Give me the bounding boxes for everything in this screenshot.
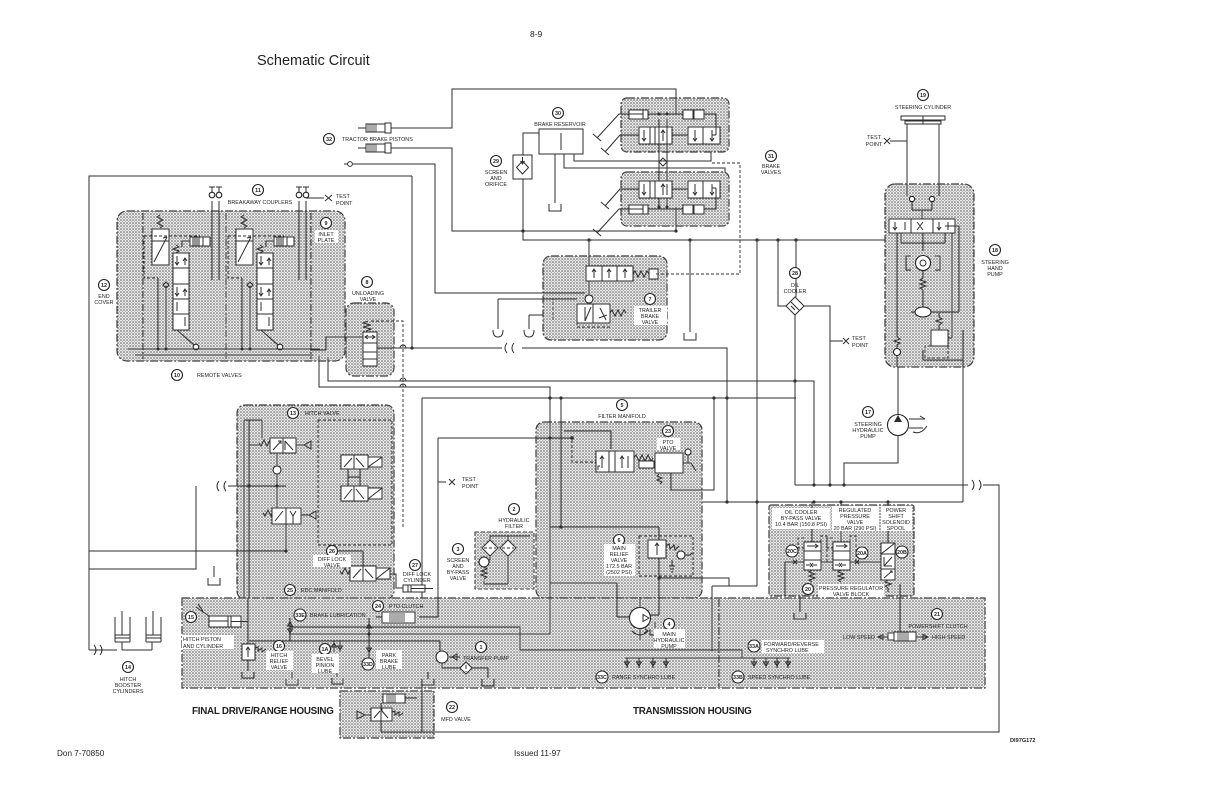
callout 14 bbox=[123, 662, 134, 673]
relief pilot tick bbox=[685, 553, 692, 555]
tank symbol under reservoir bbox=[549, 204, 561, 211]
valve B arrows bbox=[344, 458, 364, 467]
wire cooler top riser bbox=[795, 240, 797, 297]
wire forward reverse lube manifold bbox=[625, 650, 790, 658]
svg-text:33B: 33B bbox=[733, 675, 743, 681]
valve B arrows bbox=[693, 130, 714, 141]
svg-text:8-9: 8-9 bbox=[530, 29, 543, 39]
valve B cells bbox=[702, 127, 704, 144]
check circle small bbox=[894, 349, 901, 356]
svg-text:MFD VALVE: MFD VALVE bbox=[441, 717, 471, 723]
valve arrows bbox=[893, 222, 948, 230]
callout 17 bbox=[863, 407, 874, 418]
pump triangle right bbox=[643, 615, 649, 622]
label main relief bbox=[604, 544, 635, 576]
svg-text:PTO CLUTCH: PTO CLUTCH bbox=[389, 604, 423, 610]
transfer pump drop bbox=[442, 663, 461, 668]
callout 29 bbox=[491, 156, 502, 167]
junction dot bbox=[367, 632, 370, 635]
svg-text:FINAL DRIVE/RANGE HOUSING: FINAL DRIVE/RANGE HOUSING bbox=[192, 706, 334, 717]
piston hatch bbox=[277, 237, 287, 246]
junction dot bbox=[812, 483, 815, 486]
junction dot bbox=[725, 396, 728, 399]
valve 20A body bbox=[833, 542, 850, 570]
wire test point x438 stub bbox=[438, 481, 446, 483]
valve C solenoid bbox=[368, 488, 382, 499]
clutch body bbox=[894, 632, 916, 641]
callout 27 bbox=[410, 560, 421, 571]
hitch valve A body bbox=[270, 438, 296, 453]
junction dot bbox=[275, 484, 278, 487]
breakaway coupler circles unit2 bbox=[296, 192, 302, 198]
tank symbol hitch bbox=[208, 578, 220, 585]
junction dot bbox=[886, 500, 889, 503]
MFD spring bbox=[392, 711, 403, 716]
svg-text:SYNCHRO LUBE: SYNCHRO LUBE bbox=[766, 648, 809, 654]
svg-text:COVER: COVER bbox=[94, 300, 113, 306]
MFD piston bbox=[383, 694, 405, 703]
tank strip main pump bbox=[650, 622, 661, 635]
20C dashes bbox=[798, 536, 827, 564]
check riser lower bbox=[276, 474, 278, 508]
lower valve spring bbox=[610, 310, 626, 316]
svg-text:7: 7 bbox=[649, 297, 652, 303]
svg-text:20A: 20A bbox=[857, 551, 867, 557]
piston stem bbox=[182, 241, 190, 247]
callout 33D bbox=[362, 658, 374, 670]
callout 20A bbox=[856, 547, 868, 559]
svg-text:33D: 33D bbox=[363, 662, 373, 668]
solenoid 20B valve bbox=[881, 554, 895, 569]
wire cooler left riser bbox=[778, 240, 786, 306]
lower valve body B bbox=[688, 181, 720, 198]
svg-text:BRAKE RESERVOIR: BRAKE RESERVOIR bbox=[534, 122, 586, 128]
hitch relief spring bbox=[255, 647, 266, 652]
dashed pilot brake to trailer valve bbox=[656, 163, 740, 274]
hitch valve A spring bbox=[259, 440, 272, 446]
tank symbol under regulator bbox=[794, 613, 806, 619]
wire reservoir bottom out 2 bbox=[564, 154, 725, 172]
clutch left rect bbox=[888, 633, 894, 640]
pump circle bbox=[888, 415, 909, 436]
PTO clutch stem bbox=[376, 616, 382, 618]
unit 2 spool spring bbox=[257, 245, 263, 253]
PTO valve cells bbox=[609, 451, 615, 472]
svg-text:TEST: TEST bbox=[867, 135, 881, 141]
junction dot bbox=[712, 396, 715, 399]
trailer spool arrows bbox=[592, 269, 627, 278]
MFD link bbox=[381, 731, 422, 733]
valve C arrows bbox=[344, 489, 364, 499]
svg-text:1: 1 bbox=[480, 645, 483, 651]
hitch cylinder body bbox=[209, 616, 241, 627]
steering hand pump housing bbox=[885, 184, 974, 367]
svg-text:30: 30 bbox=[555, 111, 561, 117]
label box regulated pressure bbox=[832, 506, 879, 531]
solenoid diagonal bbox=[368, 488, 382, 499]
cylinder rod walls bbox=[907, 124, 939, 196]
wire steering test stub bbox=[835, 340, 843, 342]
clutch hatch bbox=[898, 632, 908, 641]
valve BC link bbox=[348, 469, 360, 486]
junction dot bbox=[570, 436, 574, 440]
gerotor circle bbox=[916, 256, 931, 271]
hitch piston lever bbox=[196, 604, 209, 616]
hitch valve B body bbox=[341, 455, 368, 469]
piston 2 hatch bbox=[368, 144, 376, 152]
pump bottom arc arrow bbox=[632, 628, 648, 640]
wire hitch circuit into block bbox=[228, 485, 286, 487]
scissors filter bbox=[449, 479, 455, 485]
hitch valve D body bbox=[272, 508, 301, 524]
svg-text:20B: 20B bbox=[897, 550, 907, 556]
solenoid diagonal bbox=[368, 457, 382, 467]
label box power shift bbox=[881, 506, 912, 531]
wire relief drain riser bbox=[658, 558, 660, 578]
wire regulator riser 20C bbox=[811, 502, 813, 542]
junction dot bbox=[657, 576, 660, 579]
svg-text:11: 11 bbox=[255, 188, 261, 194]
filter diamond 1 bbox=[482, 540, 498, 556]
remote valve section divider 1 bbox=[225, 213, 227, 359]
diamond out bbox=[472, 668, 488, 678]
svg-text:LOW SPEED: LOW SPEED bbox=[843, 635, 875, 641]
PTO actuator box bbox=[655, 453, 683, 473]
wire regulator riser 20A bbox=[840, 502, 842, 542]
callout 16 bbox=[274, 641, 285, 652]
svg-text:BRAKE LUBRICATION: BRAKE LUBRICATION bbox=[310, 613, 366, 619]
unit 1 spool spring bbox=[173, 245, 179, 253]
wire trailer valve supply riser bbox=[588, 240, 590, 266]
callout 3 bbox=[453, 544, 464, 555]
label inlet plate bbox=[315, 230, 338, 243]
trailer spool spring bbox=[633, 271, 649, 277]
svg-text:HITCH PISTON: HITCH PISTON bbox=[183, 637, 221, 643]
svg-text:29: 29 bbox=[493, 159, 499, 165]
callout 10 bbox=[172, 370, 183, 381]
valve A cells bbox=[650, 127, 655, 144]
relief dashed box bbox=[925, 346, 948, 358]
upper block inner link bbox=[648, 114, 716, 135]
hitch inner hlines bbox=[237, 445, 286, 551]
tank symbol screen drain bbox=[684, 333, 696, 340]
svg-text:SPOOL: SPOOL bbox=[887, 526, 906, 532]
label pto valve bbox=[657, 438, 680, 450]
svg-text:5: 5 bbox=[621, 403, 624, 409]
unloading valve spring bbox=[363, 321, 371, 331]
lower pedal link 2 bbox=[601, 189, 639, 209]
wire housing lube bus y627 bbox=[290, 627, 742, 650]
transfer pump circle bbox=[436, 651, 448, 663]
transfer diamond bbox=[460, 662, 472, 674]
wire relief drain bus y578 bbox=[659, 578, 729, 651]
svg-text:2: 2 bbox=[513, 507, 516, 513]
svg-text:33A: 33A bbox=[749, 644, 759, 650]
svg-text:ORIFICE: ORIFICE bbox=[485, 182, 507, 188]
label pressure regulator bbox=[818, 584, 884, 597]
valve D arrows bbox=[275, 511, 296, 524]
unloading valve spool bbox=[363, 332, 377, 366]
tank strip 3 bbox=[422, 672, 434, 685]
solenoid diagonal bbox=[376, 568, 390, 579]
wire solenoid riser bbox=[887, 502, 889, 543]
hitch valve C body bbox=[341, 486, 368, 501]
svg-text:CYLINDERS: CYLINDERS bbox=[113, 689, 144, 695]
final drive / transmission housing strip left bbox=[182, 598, 985, 688]
wire bus y381 bbox=[328, 357, 814, 485]
hop over dashed on y381 bbox=[400, 378, 406, 381]
wire main return y485 bbox=[422, 485, 999, 732]
lower valve dashed box bbox=[553, 299, 610, 327]
svg-text:DI97G172: DI97G172 bbox=[1010, 738, 1036, 744]
svg-text:19: 19 bbox=[920, 93, 926, 99]
svg-text:32: 32 bbox=[326, 137, 332, 143]
junction dot bbox=[548, 396, 551, 399]
fwd/rev lube ticks bbox=[625, 658, 669, 668]
brake valve lower housing bbox=[621, 172, 729, 226]
piston hatch bbox=[193, 237, 203, 246]
label hitch relief valve bbox=[266, 651, 293, 670]
callout 24 bbox=[373, 601, 384, 612]
piston stem bbox=[266, 241, 274, 247]
wire brake piston 1 line bbox=[391, 89, 676, 128]
unit 2 lever knob bbox=[277, 344, 283, 350]
compensator arrow bbox=[236, 237, 253, 262]
wire cooler right loop down bbox=[804, 306, 830, 485]
MFD piston rod bbox=[405, 697, 417, 699]
filter top link bbox=[490, 536, 530, 540]
svg-text:AND CYLINDER: AND CYLINDER bbox=[183, 644, 223, 650]
wire manifold drain y583 bbox=[550, 583, 617, 617]
svg-text:PUMP: PUMP bbox=[987, 272, 1003, 278]
junction dot bbox=[688, 238, 691, 241]
junction dot bbox=[755, 238, 758, 241]
label bevel pinion lube bbox=[312, 654, 339, 673]
svg-text:16: 16 bbox=[276, 644, 282, 650]
svg-text:4: 4 bbox=[668, 622, 671, 628]
svg-text:20 BAR (290 PSI): 20 BAR (290 PSI) bbox=[834, 526, 877, 532]
callout 33C bbox=[596, 671, 608, 683]
wire brake piston 2 line bbox=[391, 148, 676, 231]
piston 1 cap bbox=[385, 123, 391, 133]
callout 1A bbox=[320, 644, 331, 655]
wire screen drain bbox=[523, 179, 690, 332]
reservoir inner line bbox=[560, 133, 562, 150]
wire white box left edge bbox=[421, 398, 423, 598]
PTO lever bbox=[683, 455, 696, 471]
hitch cylinder piston bbox=[209, 616, 231, 627]
callout 22 bbox=[447, 702, 458, 713]
wire bus y387 bbox=[319, 356, 550, 634]
wire frame top-left loop bbox=[89, 176, 412, 650]
svg-text:3: 3 bbox=[457, 547, 460, 553]
callout 20C bbox=[786, 545, 798, 557]
callout 18 bbox=[990, 245, 1001, 256]
oil cooler diamond bbox=[786, 297, 804, 315]
svg-text:20: 20 bbox=[805, 587, 811, 593]
hand pump spring bbox=[920, 278, 926, 290]
junction dot bbox=[284, 549, 287, 552]
callout 12 bbox=[99, 280, 110, 291]
PTO valve body bbox=[596, 451, 634, 472]
wire regulator tank drop bbox=[799, 596, 801, 612]
unit 2 inner risers bbox=[242, 278, 250, 349]
filter diamond 2 bbox=[500, 540, 516, 556]
screen arrow bbox=[521, 157, 525, 164]
label forward reverse bbox=[762, 640, 824, 653]
junction dot bbox=[776, 238, 779, 241]
valve C cell bbox=[353, 486, 355, 501]
cyl 1 cup bbox=[115, 641, 130, 643]
MFD triangle bbox=[357, 711, 371, 719]
hop over dashed on y348 bbox=[400, 345, 406, 348]
lower trailer valve bbox=[577, 304, 610, 323]
upper brake piston bbox=[629, 110, 648, 119]
upper valve body B bbox=[688, 127, 720, 144]
lower valve body A bbox=[639, 181, 672, 198]
coupler ticks unit1 bbox=[209, 187, 222, 193]
test point scissors near couplers bbox=[325, 195, 332, 201]
hydraulic filter / screen housing bbox=[475, 532, 534, 589]
callout 6 bbox=[614, 535, 625, 546]
hand pump right link bbox=[935, 226, 959, 312]
PTO clutch body bbox=[382, 612, 415, 623]
svg-text:FILTER: FILTER bbox=[505, 524, 523, 530]
junction dot bbox=[548, 436, 551, 439]
powershift clutch divider bbox=[718, 599, 720, 687]
cyl 2 cup bbox=[146, 641, 161, 643]
bus junction dots bbox=[157, 348, 160, 351]
wire housing lube bus y634 bbox=[289, 633, 550, 635]
wire breakaway test stub bbox=[306, 197, 324, 199]
svg-text:Schematic Circuit: Schematic Circuit bbox=[257, 53, 370, 69]
svg-text:TRACTOR BRAKE PISTONS: TRACTOR BRAKE PISTONS bbox=[342, 137, 413, 143]
callout 5 bbox=[617, 400, 628, 411]
wire relief feed riser bbox=[649, 527, 659, 615]
port drops bbox=[912, 202, 932, 219]
wire regulator supply y502 bbox=[702, 501, 963, 503]
unit 1 inner risers bbox=[158, 278, 166, 349]
hitch relief valve square bbox=[242, 644, 255, 660]
svg-text:VALVE: VALVE bbox=[642, 320, 659, 326]
valve 20C body bbox=[804, 542, 821, 570]
wire bus y398 bbox=[422, 397, 796, 399]
unit 2 compensator spring bbox=[241, 215, 247, 228]
cylinder center rod bbox=[922, 116, 924, 124]
remote valve unit 1 compensator spring bbox=[157, 215, 163, 228]
relief arrow bbox=[655, 543, 659, 555]
callout 13 bbox=[288, 408, 299, 419]
20A arrows bbox=[835, 544, 847, 567]
callout 11 bbox=[253, 185, 264, 196]
wire reservoir bottom out 1 bbox=[574, 152, 711, 161]
brake mid diamond bbox=[659, 158, 667, 166]
unit 1 pilot dashed box bbox=[144, 236, 200, 278]
ellipse stem bbox=[911, 290, 935, 312]
wire pump side stub bbox=[617, 616, 630, 618]
lower valve arrows bbox=[585, 307, 607, 321]
trailer tank line bbox=[498, 299, 577, 329]
trailer pilot dash stub bbox=[656, 273, 658, 275]
unloading spool arrows bbox=[365, 335, 375, 339]
relief spring right bbox=[666, 544, 679, 550]
cylinder piston bbox=[408, 585, 431, 592]
svg-text:PUMP: PUMP bbox=[661, 644, 677, 650]
label box oil cooler bypass bbox=[772, 508, 830, 529]
coupler ticks unit2 bbox=[296, 187, 309, 193]
svg-text:FILTER MANIFOLD: FILTER MANIFOLD bbox=[598, 414, 646, 420]
svg-text:SPEED SYNCHRO LUBE: SPEED SYNCHRO LUBE bbox=[748, 675, 811, 681]
20B valve arrow bbox=[884, 557, 892, 566]
svg-text:VALVE: VALVE bbox=[271, 665, 288, 671]
callout 20 bbox=[803, 584, 814, 595]
svg-text:POINT: POINT bbox=[462, 484, 479, 490]
wire steering return bbox=[962, 367, 964, 502]
svg-text:POINT: POINT bbox=[852, 343, 869, 349]
wire hitch booster link bbox=[122, 649, 152, 651]
PTO lower spring bbox=[657, 473, 671, 484]
port circles bbox=[909, 196, 914, 201]
label diff lock valve bbox=[313, 555, 351, 567]
svg-text:26: 26 bbox=[329, 549, 335, 555]
screen diamond bbox=[517, 161, 529, 174]
svg-text:22: 22 bbox=[449, 705, 455, 711]
label main hydraulic pump bbox=[654, 629, 685, 648]
valve A actuator bbox=[296, 441, 311, 449]
svg-text:(2502 PSI): (2502 PSI) bbox=[606, 570, 632, 576]
junction dot bbox=[616, 582, 618, 584]
wire hitch booster supply bbox=[89, 649, 117, 651]
breakaway coupler risers unit2 bbox=[299, 201, 306, 280]
svg-text:VALVE BLOCK: VALVE BLOCK bbox=[833, 592, 870, 598]
trailer spool cells bbox=[602, 266, 617, 281]
svg-text:TRANSMISSION HOUSING: TRANSMISSION HOUSING bbox=[633, 706, 752, 717]
wire pump suction riser bbox=[639, 597, 641, 607]
wire oil cooler bottom to bus bbox=[794, 315, 796, 485]
unit 2 junction diamond bbox=[247, 282, 253, 288]
svg-text:33E: 33E bbox=[295, 613, 305, 619]
relief pilot circle bbox=[677, 551, 685, 559]
cooler inner marks bbox=[791, 302, 799, 310]
cross junction dots bbox=[658, 113, 661, 116]
callout 25 bbox=[285, 585, 296, 596]
screen body bbox=[513, 155, 532, 179]
callout 21 bbox=[932, 609, 943, 620]
unit 2 pilot dashed box bbox=[228, 236, 284, 278]
remote valve unit 1 compensator bbox=[152, 229, 169, 265]
valve D riser bbox=[285, 524, 287, 551]
tank strip 2 bbox=[332, 668, 343, 684]
svg-text:24: 24 bbox=[375, 604, 381, 610]
solenoid 20B coil bbox=[881, 543, 895, 554]
svg-text:33C: 33C bbox=[597, 675, 607, 681]
hitch valve D spring bbox=[263, 510, 276, 516]
callout 8 bbox=[362, 277, 373, 288]
bypass spring bbox=[481, 567, 487, 579]
callout 30 bbox=[553, 108, 564, 119]
wire port line to trailer valve bbox=[353, 164, 585, 293]
cross ticks bbox=[793, 560, 859, 564]
svg-text:25: 25 bbox=[287, 588, 293, 594]
junction dot bbox=[793, 379, 796, 382]
20C cells bbox=[804, 551, 821, 560]
upper valve body A bbox=[639, 127, 672, 144]
callout 32 bbox=[324, 134, 335, 145]
trailer pilot piston bbox=[649, 269, 658, 279]
pump side arrows bbox=[909, 416, 927, 433]
reservoir body bbox=[539, 129, 583, 154]
unloading valve housing bbox=[346, 303, 394, 376]
